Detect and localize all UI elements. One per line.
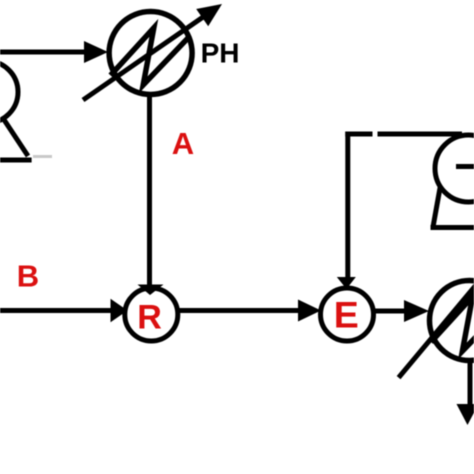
pump P2 base [431, 225, 474, 230]
HX2 control arrow [399, 279, 474, 378]
label E [334, 293, 359, 335]
heat exchanger PH circle [109, 12, 192, 95]
node R circle [125, 288, 178, 341]
base artifact gray [33, 155, 52, 158]
pump P2 circle [435, 135, 474, 202]
label A [172, 126, 194, 161]
pump P1 base [0, 158, 32, 163]
label R [137, 299, 162, 337]
wire recycle vertical into E [337, 132, 356, 290]
svg-text:A: A [172, 126, 194, 161]
label B [17, 258, 39, 293]
wire R to E [178, 300, 321, 322]
svg-text:PH: PH [201, 38, 240, 69]
heat exchanger HX2 circle [430, 281, 474, 361]
svg-text:R: R [137, 299, 162, 337]
pump P1 circle [0, 61, 18, 123]
PH control arrow [83, 4, 222, 100]
wire feed stream into PH [0, 41, 108, 63]
HX2 zigzag coil [431, 296, 474, 351]
wire product out arrow [457, 358, 474, 425]
pump P2 support leg [433, 183, 441, 228]
wire recycle horizontal to pump P2 [345, 132, 462, 137]
arrowhead stream A into R [138, 285, 164, 296]
svg-text:E: E [334, 293, 359, 335]
svg-text:B: B [17, 258, 39, 293]
node E circle [321, 288, 374, 341]
wire E to cooler [374, 300, 430, 322]
label PH [201, 38, 240, 69]
pump P1 support leg [3, 119, 28, 157]
pump P2 inner bar [456, 164, 474, 169]
PH zigzag coil [111, 28, 189, 85]
wire stream A vertical PH to R [147, 93, 152, 286]
wire stream B into R [0, 299, 128, 323]
